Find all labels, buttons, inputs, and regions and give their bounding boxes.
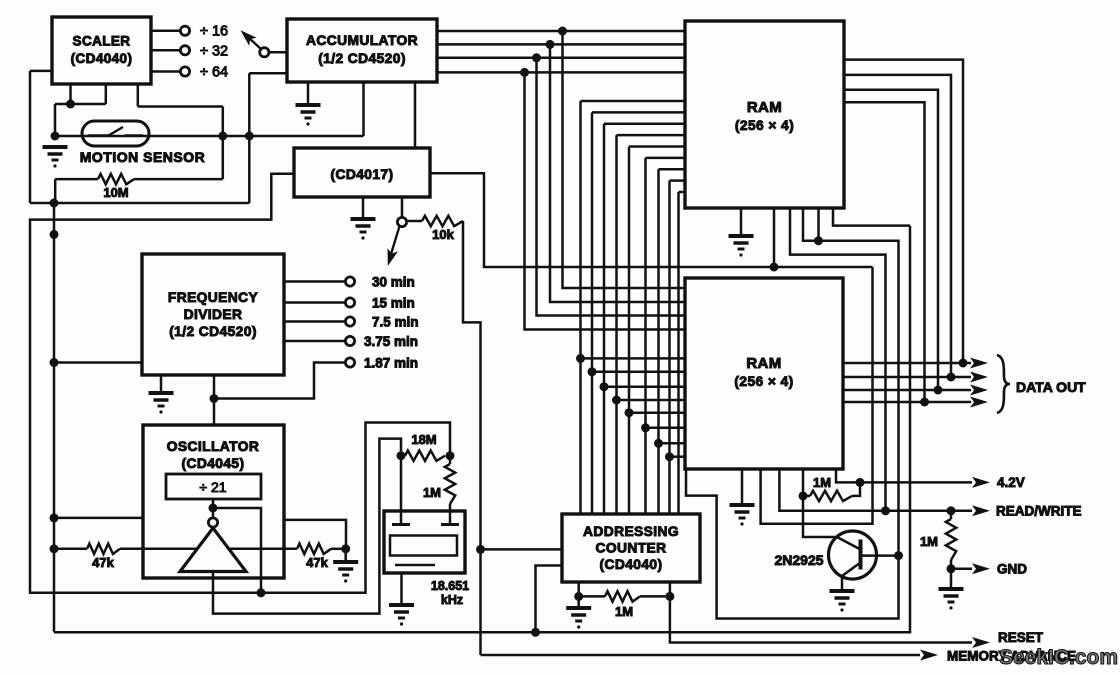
svg-text:ADDRESSING: ADDRESSING [583,524,679,539]
svg-text:÷ 21: ÷ 21 [199,479,226,495]
svg-text:÷ 32: ÷ 32 [200,43,228,59]
svg-text:10k: 10k [432,227,454,242]
svg-text:10M: 10M [103,185,128,200]
svg-text:÷ 64: ÷ 64 [200,65,228,81]
svg-text:1M: 1M [920,534,938,549]
svg-text:FREQUENCY: FREQUENCY [168,290,258,305]
svg-text:(1/2 CD4520): (1/2 CD4520) [169,324,257,339]
svg-text:OSCILLATOR: OSCILLATOR [167,439,259,454]
svg-text:47k: 47k [92,555,114,570]
svg-text:30 min: 30 min [372,275,415,290]
svg-text:(CD4040): (CD4040) [599,557,662,572]
svg-text:2N2925: 2N2925 [774,552,823,568]
svg-text:4.2V: 4.2V [997,475,1025,490]
svg-text:15 min: 15 min [372,296,415,311]
svg-text:7.5 min: 7.5 min [372,315,419,330]
svg-text:COUNTER: COUNTER [595,541,666,556]
svg-text:SeekIC.com: SeekIC.com [999,646,1118,669]
svg-text:1M: 1M [813,475,831,490]
svg-text:kHz: kHz [441,593,463,607]
svg-text:RAM: RAM [747,99,782,116]
svg-text:1M: 1M [615,604,633,619]
svg-text:(256 × 4): (256 × 4) [734,374,793,389]
svg-text:3.75 min: 3.75 min [364,334,418,349]
svg-text:RAM: RAM [746,355,781,372]
svg-text:18.651: 18.651 [431,579,469,593]
svg-text:ACCUMULATOR: ACCUMULATOR [306,33,418,48]
svg-text:DIVIDER: DIVIDER [184,307,243,322]
svg-text:SCALER: SCALER [73,34,131,49]
svg-text:READ/WRITE: READ/WRITE [996,504,1082,519]
svg-text:÷ 16: ÷ 16 [200,24,228,40]
svg-text:(CD4017): (CD4017) [330,167,393,182]
svg-text:GND: GND [997,562,1027,577]
svg-text:RESET: RESET [998,630,1044,645]
svg-text:1M: 1M [423,485,441,500]
svg-text:1.87 min: 1.87 min [364,356,418,371]
svg-text:(256 × 4): (256 × 4) [735,118,794,133]
svg-text:(CD4040): (CD4040) [71,51,133,66]
svg-text:18M: 18M [411,432,436,447]
svg-text:(CD4045): (CD4045) [181,456,244,471]
svg-text:47k: 47k [306,555,328,570]
svg-text:(1/2 CD4520): (1/2 CD4520) [318,51,406,66]
svg-text:DATA OUT: DATA OUT [1016,379,1086,395]
svg-text:MOTION SENSOR: MOTION SENSOR [80,149,206,165]
